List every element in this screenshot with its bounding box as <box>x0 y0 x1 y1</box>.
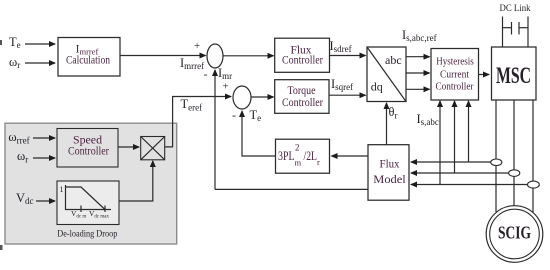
block MSC <box>492 47 537 100</box>
block Flux Model <box>368 145 409 201</box>
wire dq to hysteresis phase c <box>406 88 430 90</box>
wire Imr feedback vertical <box>214 70 216 189</box>
wire hysteresis to MSC <box>479 74 490 76</box>
wire sensor b to flux model <box>411 172 509 174</box>
summing junction 2 <box>233 86 251 109</box>
current sensor phase c <box>528 181 540 188</box>
block Torque Controller <box>275 80 329 114</box>
wire Imrref to summing junction 1 <box>120 55 206 57</box>
wire dq to hysteresis phase a <box>406 56 430 58</box>
wire junction1 to Flux Controller <box>223 55 274 57</box>
wire DC link rail right <box>527 17 529 48</box>
wire sensor c to flux model <box>411 184 528 186</box>
wire theta-r from Flux Model to dq block <box>386 103 388 145</box>
svg-text:Current: Current <box>440 70 469 81</box>
svg-text:r: r <box>317 157 320 167</box>
wire wrref into speed controller <box>33 137 55 139</box>
summing junction 1 <box>207 44 223 68</box>
wire dq to hysteresis phase b <box>406 72 430 74</box>
svg-text:-: - <box>204 67 208 81</box>
svg-text:2: 2 <box>295 143 300 153</box>
wire droop to multiplier <box>119 161 153 201</box>
wire Is,abc tap a up to hysteresis <box>468 101 470 162</box>
svg-text:MSC: MSC <box>496 63 531 88</box>
multiplier block <box>141 137 165 160</box>
capacitor DC link <box>503 27 512 29</box>
wire Is,abc tap b up to hysteresis <box>454 101 456 173</box>
wire wr into speed controller <box>33 157 55 159</box>
svg-text:abc: abc <box>385 53 402 67</box>
svg-text:m: m <box>295 158 302 168</box>
wire junction2 to Torque Controller <box>251 96 274 98</box>
de-loading droop subsystem gray panel <box>5 123 177 244</box>
svg-text:+: + <box>223 81 229 93</box>
wire Imr feedback horizontal from Flux Model <box>215 188 368 190</box>
wire MSC phase a down <box>495 100 497 159</box>
svg-text:Model: Model <box>373 172 406 186</box>
edge artifact marks <box>0 40 2 45</box>
block Flux Controller <box>275 38 330 72</box>
block torque constant 3PLm2/2Lr <box>276 139 330 173</box>
svg-text:SCIG: SCIG <box>498 223 531 243</box>
block de-loading droop characteristic <box>57 181 119 225</box>
wire Isdref to dq block <box>330 55 366 57</box>
wire Te feedback from 3PL box to junction 2 <box>242 111 276 156</box>
wire Vdc into droop block <box>36 200 55 202</box>
wire MSC phase b down <box>513 100 515 170</box>
svg-text:Calculation: Calculation <box>66 55 110 67</box>
block dq-abc transform <box>367 47 406 102</box>
block Imrref Calculation <box>58 38 120 77</box>
generator SCIG outer circle <box>486 206 543 263</box>
current sensor phase b <box>509 170 520 177</box>
wire Te input arrow <box>25 43 55 45</box>
wire Isqref to dq block <box>329 94 366 96</box>
svg-text:Flux: Flux <box>380 157 400 171</box>
wire Teref into junction 2 <box>165 97 231 147</box>
svg-text:1: 1 <box>60 185 64 194</box>
wire wr input arrow <box>25 62 55 64</box>
wire speed controller to multiplier <box>118 146 139 148</box>
wire Flux Model to 3PL box <box>332 155 369 157</box>
svg-text:Controller: Controller <box>282 97 323 109</box>
svg-text:-: - <box>232 108 236 122</box>
svg-text:3PL: 3PL <box>278 149 295 163</box>
current sensor phase a <box>491 159 502 166</box>
block Hysteresis Current Controller <box>431 49 479 101</box>
svg-text:Controller: Controller <box>68 146 109 158</box>
svg-text:/2L: /2L <box>304 149 318 163</box>
svg-text:+: + <box>194 40 200 52</box>
svg-text:Hysteresis: Hysteresis <box>436 57 474 68</box>
svg-text:Controller: Controller <box>436 82 475 93</box>
svg-text:DC Link: DC Link <box>500 4 531 14</box>
svg-text:De-loading Droop: De-loading Droop <box>57 229 117 239</box>
svg-text:Torque: Torque <box>288 85 316 97</box>
wire Is,abc tap c up to hysteresis <box>439 101 441 185</box>
svg-text:Controller: Controller <box>282 55 323 67</box>
block Speed Controller <box>57 129 118 168</box>
generator SCIG inner circle <box>490 209 540 259</box>
wire MSC phase c down <box>532 100 534 182</box>
wire sensor a to flux model <box>411 161 491 163</box>
svg-text:dq: dq <box>371 80 383 94</box>
wire DC link rail left <box>502 17 504 48</box>
